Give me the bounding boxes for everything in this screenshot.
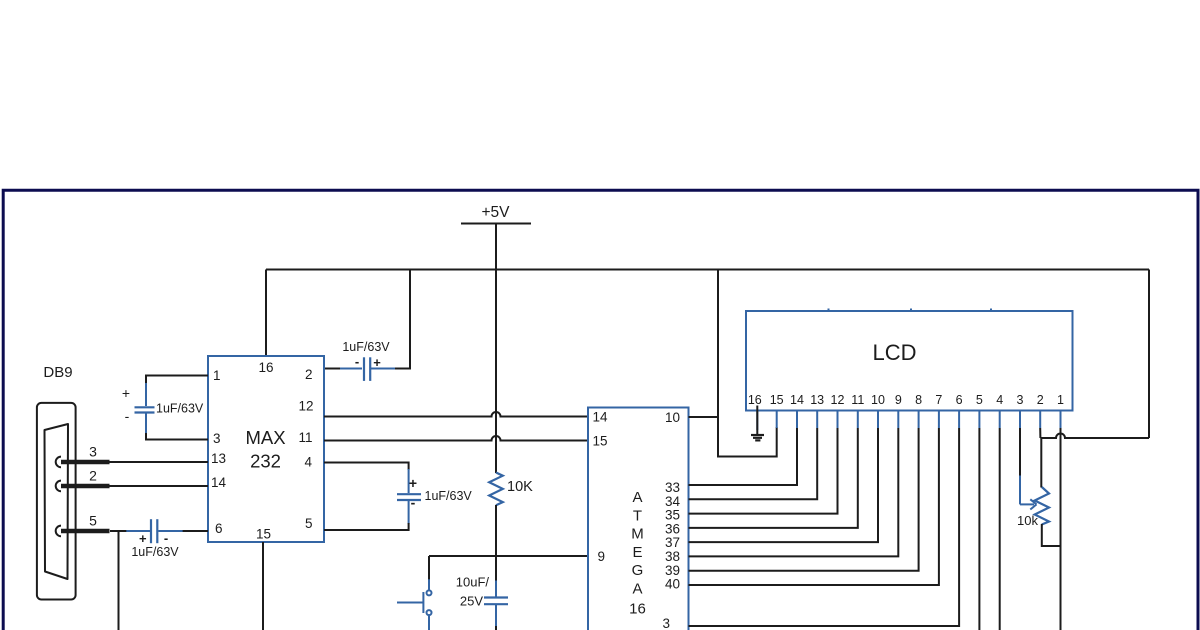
IC U1 MAX232: [208, 356, 324, 542]
svg-text:10: 10: [665, 410, 680, 425]
wire DB9 pin3 thick lead: [61, 460, 110, 464]
svg-text:15: 15: [256, 527, 271, 542]
IC U2 ATMEGA16: [588, 408, 689, 630]
svg-text:-: -: [355, 354, 359, 369]
svg-text:-: -: [164, 531, 168, 546]
svg-text:11: 11: [851, 393, 864, 407]
svg-text:G: G: [632, 562, 644, 579]
wire LCD pin1 down: [1060, 428, 1062, 630]
svg-text:37: 37: [665, 535, 680, 550]
+5V supply symbol: [461, 204, 531, 270]
wire rail drop to C2: [409, 270, 411, 370]
LCD module: [746, 309, 1073, 411]
svg-text:11: 11: [298, 430, 312, 445]
LCD pin stubs: [777, 411, 1061, 428]
wire U2 pin33 to LCD pin14: [689, 428, 798, 485]
svg-text:E: E: [632, 544, 642, 561]
svg-text:36: 36: [665, 521, 680, 536]
svg-text:10uF/: 10uF/: [456, 575, 490, 590]
svg-text:10: 10: [871, 393, 885, 407]
svg-text:2: 2: [89, 468, 97, 484]
wire rail drop x718 to LCD pin15: [718, 270, 777, 457]
wire LCD pin4 down: [999, 428, 1001, 630]
svg-text:+: +: [122, 385, 130, 401]
svg-text:40: 40: [665, 577, 680, 592]
svg-text:5: 5: [89, 513, 97, 529]
svg-text:1uF/63V: 1uF/63V: [425, 489, 473, 503]
svg-text:1uF/63V: 1uF/63V: [131, 545, 179, 559]
svg-text:14: 14: [211, 475, 227, 490]
svg-text:+: +: [373, 355, 381, 370]
svg-text:3: 3: [1017, 393, 1024, 407]
svg-text:T: T: [633, 507, 642, 524]
potentiometer R2 10k body: [1035, 428, 1061, 546]
svg-text:34: 34: [665, 494, 681, 509]
wire U2 pin34 to LCD pin13: [689, 428, 818, 499]
svg-text:10K: 10K: [507, 479, 533, 495]
connector J1 DB9: [37, 364, 76, 600]
wire U1 pin11 to U2 pin15 (hop over +5V line): [324, 436, 588, 440]
svg-text:3: 3: [213, 431, 221, 446]
svg-text:35: 35: [665, 508, 680, 523]
svg-text:MAX: MAX: [245, 427, 285, 448]
svg-text:2: 2: [305, 367, 313, 382]
wire U2 pin35 to LCD pin12: [689, 428, 838, 514]
wire DB9 pin2 thick lead: [61, 484, 110, 488]
wire U2 pin10 stub: [689, 416, 720, 418]
wire U2 pin36 to LCD pin11: [689, 428, 858, 528]
svg-text:14: 14: [593, 410, 609, 425]
svg-text:1: 1: [1057, 393, 1064, 407]
capacitor C1 1uF/63V (U1 pin1-pin3 loop): [122, 376, 208, 440]
svg-text:+5V: +5V: [481, 204, 510, 221]
potentiometer R2 10k wiper from LCD pin3: [1017, 428, 1038, 528]
wire right vertical from rail: [1148, 270, 1150, 439]
svg-text:13: 13: [211, 451, 226, 466]
svg-text:4: 4: [996, 393, 1003, 407]
svg-text:14: 14: [790, 393, 804, 407]
svg-text:16: 16: [629, 601, 646, 618]
svg-text:LCD: LCD: [872, 340, 916, 365]
svg-text:15: 15: [770, 393, 784, 407]
svg-text:25V: 25V: [460, 594, 483, 609]
schematic border frame: [3, 190, 1198, 630]
svg-text:5: 5: [305, 516, 313, 531]
wire U2 pin39 to LCD pin8: [689, 428, 919, 571]
wire U2 pin3 to LCD pin6: [689, 428, 960, 626]
svg-text:9: 9: [598, 549, 606, 564]
svg-text:A: A: [632, 581, 642, 598]
capacitor C2 1uF/63V (U1 pin2 to rail): [324, 340, 411, 381]
svg-text:1uF/63V: 1uF/63V: [342, 340, 390, 354]
svg-text:3: 3: [89, 444, 97, 460]
svg-text:+: +: [409, 475, 417, 491]
svg-text:-: -: [411, 495, 416, 511]
wire right feed (rail to R2 top, hop over pin1): [1040, 434, 1149, 439]
wire DB9.2 to U1 pin14: [109, 485, 208, 487]
capacitor C4 1uF/63V (U1 pin4-pin5 loop): [324, 463, 472, 531]
svg-text:38: 38: [665, 549, 680, 564]
svg-text:232: 232: [250, 451, 281, 472]
svg-text:16: 16: [748, 393, 762, 407]
wire VCC rail: [266, 269, 1149, 271]
svg-text:15: 15: [593, 434, 608, 449]
wire U1 pin15 down: [262, 542, 264, 630]
capacitor C3 1uF/63V (DB9.5 to U1 pin6): [110, 519, 208, 559]
svg-text:13: 13: [810, 393, 824, 407]
wire U2 pin38 to LCD pin9: [689, 428, 899, 556]
resistor R1 10K: [489, 270, 533, 557]
svg-text:1: 1: [213, 368, 221, 383]
svg-text:8: 8: [915, 393, 922, 407]
svg-text:A: A: [632, 489, 642, 506]
svg-text:2: 2: [1037, 393, 1044, 407]
svg-text:12: 12: [298, 399, 313, 414]
wire rail to U1 pin16: [265, 270, 267, 357]
svg-text:5: 5: [976, 393, 983, 407]
svg-text:1uF/63V: 1uF/63V: [156, 402, 204, 416]
svg-text:16: 16: [258, 360, 273, 375]
svg-text:39: 39: [665, 563, 680, 578]
svg-text:DB9: DB9: [43, 364, 72, 381]
svg-text:33: 33: [665, 480, 680, 495]
svg-text:9: 9: [895, 393, 902, 407]
wire U1 pin12 to U2 pin14 (hop over +5V line): [324, 412, 588, 417]
svg-text:7: 7: [935, 393, 942, 407]
svg-text:-: -: [125, 408, 130, 424]
wire DB9.3 to U1 pin13: [109, 461, 208, 463]
ground at LCD pin16: [751, 406, 764, 441]
wire U2 pin9 row: [429, 555, 588, 557]
wire DB9 pin5 thick lead: [61, 529, 110, 533]
svg-text:6: 6: [956, 393, 963, 407]
capacitor C5 10uF/25V: [456, 556, 508, 630]
svg-text:+: +: [139, 531, 147, 546]
svg-text:M: M: [631, 526, 644, 543]
wire U2 pin37 to LCD pin10: [689, 428, 879, 542]
wire DB9.5 junction drop: [118, 531, 120, 630]
push button SW1: [397, 556, 432, 630]
svg-text:12: 12: [831, 393, 845, 407]
wire U2 pin40 to LCD pin7: [689, 428, 939, 585]
svg-text:6: 6: [215, 521, 223, 536]
wire LCD pin5 down: [978, 428, 980, 630]
svg-text:4: 4: [304, 455, 312, 470]
svg-text:3: 3: [662, 616, 670, 630]
